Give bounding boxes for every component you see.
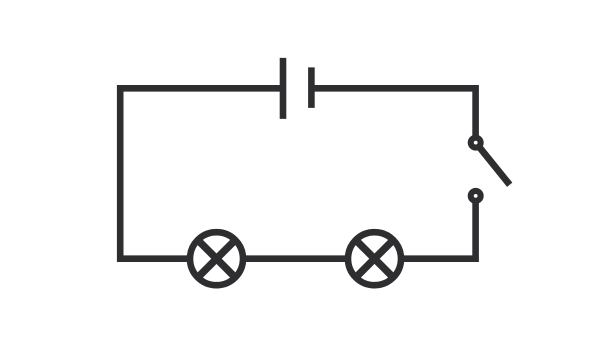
lamp L2 — [348, 232, 401, 285]
battery B1 long plate — [280, 58, 287, 119]
switch S1 lever — [476, 143, 510, 185]
battery B1 short plate — [308, 67, 315, 108]
switch S1 pivot contact — [468, 135, 484, 151]
wire top-left segment (battery to top-left corner, down left side, along bottom to right corner) — [120, 88, 475, 258]
lamp L1 — [190, 232, 243, 285]
switch S1 open contact — [468, 188, 484, 204]
wire top-right segment (battery right plate to top-right corner, down to switch pivot) — [311, 88, 475, 142]
